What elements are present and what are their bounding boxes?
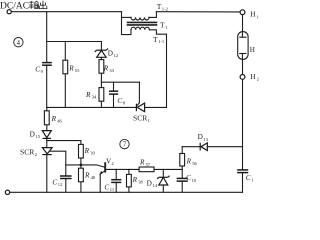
svg-text:C: C bbox=[117, 97, 122, 105]
svg-text:R: R bbox=[84, 171, 90, 179]
svg-text:D: D bbox=[108, 50, 113, 58]
svg-text:R: R bbox=[186, 158, 192, 166]
svg-text:55: 55 bbox=[75, 68, 80, 73]
svg-text:1-1: 1-1 bbox=[158, 39, 165, 44]
svg-text:C: C bbox=[35, 66, 40, 74]
svg-text:D: D bbox=[147, 180, 152, 188]
svg-text:1-2: 1-2 bbox=[162, 7, 169, 12]
svg-text:R: R bbox=[85, 91, 91, 99]
svg-text:R: R bbox=[51, 115, 57, 123]
svg-text:SCR: SCR bbox=[20, 147, 35, 156]
svg-text:40: 40 bbox=[91, 175, 96, 180]
svg-text:11: 11 bbox=[110, 187, 115, 192]
svg-text:R: R bbox=[132, 176, 138, 184]
svg-text:R: R bbox=[68, 65, 74, 73]
svg-text:15: 15 bbox=[35, 134, 40, 139]
svg-text:46: 46 bbox=[57, 118, 62, 123]
svg-text:56: 56 bbox=[192, 161, 197, 166]
svg-text:C: C bbox=[246, 174, 251, 182]
svg-text:14: 14 bbox=[152, 183, 157, 188]
svg-text:H: H bbox=[250, 46, 255, 54]
svg-text:C: C bbox=[104, 184, 109, 192]
svg-text:SCR: SCR bbox=[133, 114, 148, 123]
svg-text:39: 39 bbox=[90, 151, 95, 156]
svg-text:C: C bbox=[186, 174, 191, 182]
svg-text:38: 38 bbox=[138, 180, 143, 185]
svg-text:34: 34 bbox=[92, 95, 97, 100]
svg-text:C: C bbox=[52, 179, 57, 187]
svg-text:10: 10 bbox=[191, 178, 196, 183]
svg-text:12: 12 bbox=[114, 53, 119, 58]
svg-text:DC/AC: DC/AC bbox=[0, 2, 29, 12]
svg-text:D: D bbox=[30, 131, 35, 139]
svg-text:D: D bbox=[198, 133, 203, 141]
svg-text:H: H bbox=[250, 73, 255, 81]
svg-text:R: R bbox=[84, 147, 90, 155]
svg-text:R: R bbox=[103, 65, 109, 73]
svg-text:4: 4 bbox=[17, 40, 21, 47]
svg-text:R: R bbox=[139, 158, 145, 166]
svg-text:33: 33 bbox=[109, 68, 114, 73]
svg-text:7: 7 bbox=[123, 142, 127, 149]
svg-text:57: 57 bbox=[146, 162, 151, 167]
svg-text:13: 13 bbox=[203, 137, 208, 142]
svg-text:12: 12 bbox=[58, 182, 63, 187]
svg-text:H: H bbox=[250, 11, 255, 19]
